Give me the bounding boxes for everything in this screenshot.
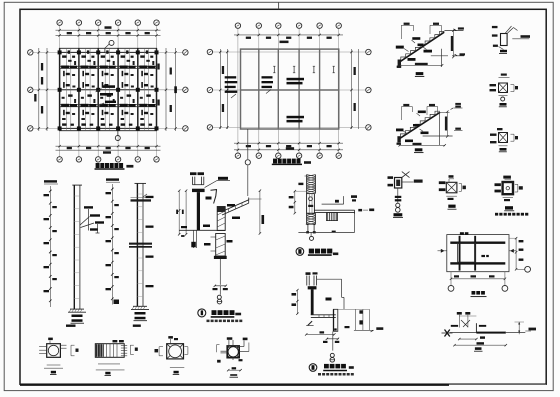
framing plan: second annotation cluster <box>262 76 274 93</box>
gutter detail 3: slab <box>311 315 336 318</box>
stair section TB2: top-right dimension <box>427 104 438 115</box>
stair section TB1: sloped slab <box>400 31 445 61</box>
gutter detail 1: wall <box>192 189 205 231</box>
foundation plan: left grid bubbles A-C <box>28 50 33 131</box>
member section GZ1 <box>490 74 519 107</box>
section 2-2 <box>95 340 138 376</box>
joint plan detail: right arrow <box>509 249 517 253</box>
foundation plan: title <box>95 163 134 169</box>
step profile detail: top dimensions <box>457 312 477 328</box>
framing plan: centre note lower <box>287 116 305 123</box>
gutter detail 1: sloped roof slab <box>222 198 249 220</box>
framing plan: top grid bubbles <box>235 23 341 28</box>
gutter detail 1: top gutter profile <box>190 172 204 184</box>
column elevation KZ-1: shaft <box>72 185 82 309</box>
member section GZ2 <box>490 128 518 152</box>
stair section TB2: mid level line <box>423 112 453 145</box>
foundation plan: grid beams <box>60 48 157 130</box>
framing plan: left annotation cluster <box>225 76 238 98</box>
column elevation KZ-2: shaft <box>135 183 147 306</box>
foundation plan: right grid bubbles A-C <box>183 50 188 131</box>
gutter detail 1: below-grade wall lines <box>191 230 196 248</box>
foundation plan: top dimension lines <box>56 26 161 36</box>
gutter detail 1: right dimension line <box>249 190 264 235</box>
joint plan detail: axis bubbles <box>448 286 508 292</box>
gutter detail 3: left check mark <box>306 321 313 325</box>
joint plan detail: label <box>471 291 487 297</box>
joint plan detail: top beam <box>450 242 505 244</box>
stair section TB2: right level marks <box>451 103 463 131</box>
gutter detail 1: section symbols <box>217 295 222 304</box>
framing plan: beam outline <box>241 49 339 129</box>
framing plan: slab span symbols <box>273 66 335 73</box>
column elevation KZ-1: rebar callout <box>80 206 104 233</box>
framing plan: bottom grid bubbles <box>235 153 341 158</box>
stair section TB1: mid level line <box>431 53 465 56</box>
step profile detail: right level dim <box>515 322 537 334</box>
stair section TB2: top-left dimension <box>402 104 413 120</box>
stair section TB2: right vertical dimension <box>440 111 450 138</box>
stair section TB2: label <box>414 148 424 152</box>
framing plan: centre note upper <box>287 78 305 85</box>
column elevation KZ-2: beam flange middle <box>129 243 152 248</box>
gutter detail 3: wall <box>308 286 317 315</box>
gutter detail 1: column below <box>204 234 233 257</box>
canopy detail 2: wall below cut <box>306 224 315 233</box>
member section LT2 <box>439 175 466 209</box>
stair section TB2: sloped slab <box>400 111 440 138</box>
foundation plan: centre labels <box>96 85 117 106</box>
foundation plan: column marks at intersections <box>58 50 159 130</box>
foundation plan: bottom grid bubbles 1-6 <box>57 157 159 162</box>
gutter detail 1: soffit line <box>179 225 225 231</box>
member section TL1 <box>492 26 530 54</box>
framing plan: right grid bubbles <box>366 49 371 130</box>
canopy detail 2: section symbol <box>310 232 314 240</box>
canopy detail 2: hatched drop beam <box>327 212 338 220</box>
canopy detail 2: upper hatched wall <box>298 175 315 194</box>
step profile detail: floor lines <box>450 323 526 333</box>
joint plan detail: right axis bubble <box>516 266 530 272</box>
framing plan: bottom dimension lines <box>234 142 343 151</box>
column section detail: square with circle <box>227 346 239 358</box>
canopy detail 2: title <box>296 248 338 256</box>
gutter detail 3: small dim under beam <box>345 326 350 328</box>
foundation plan: annotation marks <box>61 50 155 125</box>
stair section TB1: left support hatch <box>397 60 401 68</box>
member section GZ3 <box>388 172 423 218</box>
column section detail: left ties <box>217 345 228 363</box>
gutter detail 3: level mark right <box>354 327 383 332</box>
joint plan detail: top marks <box>460 232 469 235</box>
joint plan detail: vertical beams <box>459 236 477 271</box>
step profile detail: fw1 label <box>480 336 485 338</box>
gutter detail 3: left dimension <box>292 289 299 315</box>
foundation plan: right dimension lines <box>157 48 177 131</box>
foundation plan: thin axis lines <box>33 25 183 156</box>
gutter detail 1: section line down <box>213 259 228 295</box>
joint plan detail: bottom dimension <box>450 272 506 286</box>
gutter detail 1: hatched base bar <box>214 256 227 259</box>
column elevation KZ-2: footing <box>131 306 149 327</box>
joint plan detail: right dimension <box>509 237 523 271</box>
canopy detail 2: wall beam zone <box>307 194 315 214</box>
step profile detail: cross mark <box>442 330 453 337</box>
column section detail: right ties <box>239 343 249 352</box>
framing plan: left grid bubbles <box>207 49 212 130</box>
canopy detail 2: lower hatched wall <box>306 213 316 225</box>
foundation plan: outline <box>60 48 157 130</box>
column elevation KZ-2: dimension line <box>106 178 121 304</box>
framing plan: section callout line and bubble <box>245 129 250 196</box>
member section FGZ <box>495 176 529 216</box>
stair section TB1: rebar labels <box>396 37 432 61</box>
gutter detail 3: top gutter profile <box>306 272 318 285</box>
stair section TB1: top-right dimension <box>430 23 441 34</box>
stair section TB1: label <box>415 72 424 76</box>
canopy detail 2: slab <box>314 210 354 214</box>
gutter detail 3: right dimension <box>338 309 370 330</box>
column section detail: top ties <box>227 337 248 346</box>
gutter detail 3: bottom dimension <box>305 331 336 335</box>
gutter detail 1: beam section <box>217 207 225 231</box>
step profile detail: dashed bars <box>451 325 486 327</box>
column section detail: bottom dim <box>227 358 243 378</box>
stair section TB2: rebar labels <box>396 111 429 143</box>
top fold tick <box>278 2 280 9</box>
gutter detail 1: title <box>198 309 243 322</box>
stair section TB2: left support hatch <box>397 136 401 145</box>
foundation plan: intermediate foundation beam lines <box>66 48 148 130</box>
stair section TB1: top landing line <box>444 27 464 30</box>
stair section TB2: bottom dimension <box>399 143 446 147</box>
foundation plan: bottom dimension lines <box>56 145 161 154</box>
gutter detail 3: section line down <box>323 331 339 350</box>
framing plan: thin axis lines <box>213 28 366 152</box>
foundation plan: callout bubble bottom <box>115 131 120 141</box>
section 1-1 <box>39 338 78 375</box>
column elevation KZ-2: beam flange top <box>131 198 152 202</box>
column elevation KZ-1: footing <box>66 309 86 327</box>
framing plan: top dimension lines <box>234 34 343 43</box>
framing plan: left dimension lines <box>219 49 228 129</box>
foundation plan: left dimension lines <box>34 48 48 131</box>
stair section TB1: right vertical dimension <box>451 29 455 58</box>
gutter detail 3: title <box>309 364 354 376</box>
joint plan detail: mid marks <box>481 255 488 257</box>
gutter detail 3: section symbol <box>330 353 335 362</box>
joint plan detail: frame <box>447 235 509 272</box>
step profile detail: bottom dimensions <box>453 338 507 351</box>
canopy detail 2: right labels <box>351 195 374 211</box>
canopy detail 2: left dimension <box>289 190 307 214</box>
framing plan: right dimension lines <box>350 49 358 129</box>
canopy detail 2: top leader <box>322 196 344 204</box>
detail 1 left dimension lines <box>176 190 187 237</box>
stair section TB1: right end riser line <box>441 49 443 67</box>
canopy detail 2: ground line <box>298 212 354 232</box>
gutter detail 3: leader <box>317 279 344 309</box>
gutter detail 3: end beam <box>334 309 338 331</box>
column elevation KZ-1: dimension line <box>44 180 59 307</box>
section 3-3 <box>155 336 188 375</box>
column elevation KZ-2: right annotations <box>143 194 154 287</box>
foundation plan: callout bubble top <box>105 40 114 53</box>
joint plan detail: inner square <box>458 243 476 262</box>
foundation plan: top grid bubbles 1-6 <box>57 20 159 25</box>
gutter detail 1: hook rebar <box>206 190 217 204</box>
joint plan detail: left arrow <box>438 249 447 253</box>
framing plan: title <box>272 159 311 165</box>
gutter detail 1: top leader <box>205 177 230 188</box>
stair section TB1: bottom dimension <box>397 63 444 68</box>
joint plan detail: bottom beam <box>450 262 505 264</box>
stair section TB1: top-left dimension <box>401 23 413 39</box>
